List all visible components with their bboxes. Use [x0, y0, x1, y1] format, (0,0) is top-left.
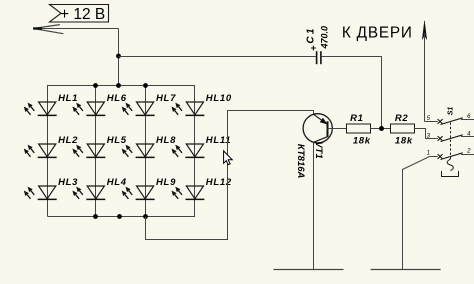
power flag +12V: [50, 5, 109, 23]
svg-text:HL9: HL9: [156, 177, 176, 188]
LED HL7: [122, 93, 176, 115]
LED HL9: [122, 177, 176, 199]
switch S1: [425, 107, 474, 177]
LED HL5: [72, 135, 126, 157]
LED HL2: [24, 135, 78, 157]
wire capacitor to R1/R2 junction: [322, 57, 382, 127]
svg-text:R1: R1: [350, 113, 364, 124]
svg-text:HL4: HL4: [107, 177, 127, 188]
LED HL1: [24, 93, 78, 115]
resistor R1 18k: [347, 113, 371, 146]
svg-text:2: 2: [466, 149, 471, 155]
LED HL12: [172, 177, 232, 199]
pole 1 (top): [425, 121, 438, 123]
svg-text:HL2: HL2: [58, 135, 78, 146]
wire R1 to junction: [371, 128, 391, 130]
node junction dot to C1 branch: [116, 54, 121, 59]
up arrow to door: [422, 21, 427, 122]
node dots top bus: [93, 83, 98, 88]
ground bar left: [274, 269, 344, 271]
node junction dot R1/R2: [379, 126, 384, 131]
LED HL4: [72, 177, 126, 199]
actuator bracket: [442, 171, 459, 177]
svg-text:К ДВЕРИ: К ДВЕРИ: [342, 24, 412, 41]
LED HL3: [24, 177, 78, 199]
svg-text:18k: 18k: [353, 135, 371, 146]
svg-text:HL1: HL1: [58, 93, 78, 104]
LED matrix outer frame buses: [48, 86, 195, 217]
svg-text:КТ816А: КТ816А: [295, 144, 306, 179]
svg-text:VT1: VT1: [313, 141, 324, 158]
resistor R2 18k: [391, 113, 415, 146]
svg-text:C1: C1: [306, 26, 317, 43]
wire R2 to switch middle pole: [415, 129, 438, 139]
LED HL10: [172, 93, 232, 115]
svg-text:18k: 18k: [395, 135, 413, 146]
wire branch to capacitor C1: [119, 56, 316, 58]
ground bar right: [371, 269, 441, 271]
wire bottom pole to ground: [403, 157, 438, 270]
svg-text:+ 12 В: + 12 В: [60, 6, 105, 23]
svg-text:HL5: HL5: [107, 135, 127, 146]
LED HL11: [172, 135, 232, 157]
mouse cursor: [224, 151, 233, 165]
svg-text:HL6: HL6: [107, 93, 127, 104]
svg-text:S1: S1: [447, 107, 454, 116]
pole 2 (middle): [438, 136, 443, 141]
actuator zigzag: [447, 159, 453, 171]
linkage dashed: [450, 123, 452, 160]
svg-text:HL8: HL8: [156, 135, 176, 146]
svg-text:HL3: HL3: [58, 177, 78, 188]
LED HL6: [72, 93, 126, 115]
wire column 2: [95, 86, 97, 217]
capacitor C1 470.0: [306, 26, 330, 64]
wire column 3: [145, 86, 147, 217]
node dots bottom bus: [93, 214, 98, 219]
svg-text:1: 1: [427, 151, 430, 157]
wire feed vertical: [118, 29, 120, 86]
svg-text:470.0: 470.0: [320, 26, 330, 50]
svg-text:HL7: HL7: [156, 93, 176, 104]
wire base to R1: [328, 128, 347, 130]
wire emitter to ground: [313, 142, 315, 269]
transistor VT1 KT816A (PNP): [295, 114, 332, 179]
svg-text:+: +: [311, 43, 317, 54]
pole 3 (bottom): [438, 154, 443, 159]
svg-text:HL10: HL10: [206, 93, 232, 104]
svg-text:R2: R2: [395, 113, 409, 124]
wire matrix output to transistor emitter: [146, 111, 314, 240]
left net arrow: [33, 25, 118, 34]
LED HL8: [122, 135, 176, 157]
